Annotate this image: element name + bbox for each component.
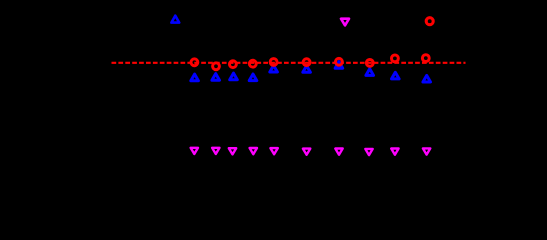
legend: magenta down-triangle xyxy=(341,19,349,26)
magenta down-triangle series xyxy=(191,148,431,155)
legend: red circle xyxy=(426,18,433,25)
red circle series xyxy=(191,55,429,70)
legend: blue up-triangle xyxy=(171,16,179,23)
blue up-triangle series xyxy=(191,62,431,82)
dashed red reference line xyxy=(112,62,466,64)
